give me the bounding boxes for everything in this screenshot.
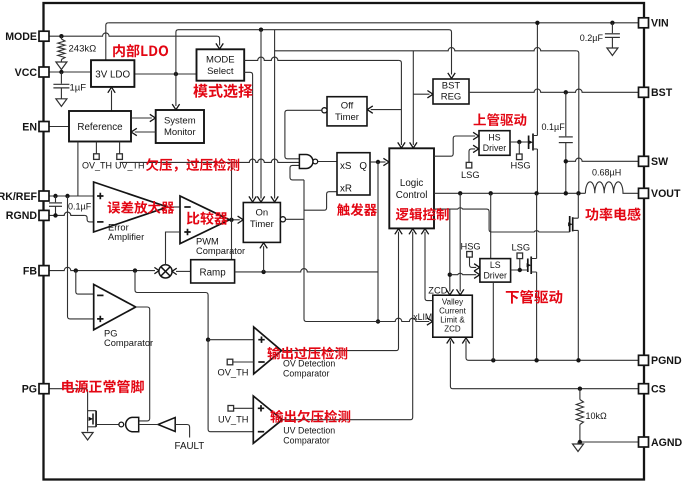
svg-text:FB: FB: [23, 265, 37, 277]
wire MODE Select out 2: [244, 72, 252, 198]
ground PG FET: [82, 433, 93, 441]
label error amplifier: [108, 201, 175, 214]
pin BST: [639, 87, 649, 97]
svg-text:HSG: HSG: [461, 242, 481, 252]
wire ZCD sense: [459, 193, 461, 291]
svg-text:1µF: 1µF: [70, 83, 87, 94]
wire CS: [450, 341, 639, 389]
pin MODE: [39, 31, 49, 41]
wire On Timer out: [286, 218, 305, 220]
svg-text:Comparator: Comparator: [104, 338, 153, 348]
svg-text:xS: xS: [340, 161, 352, 172]
svg-text:System: System: [164, 116, 196, 127]
wire comparator bus to NAND: [120, 159, 300, 162]
svg-text:Error: Error: [108, 223, 129, 233]
svg-text:3V LDO: 3V LDO: [95, 69, 130, 80]
wire Ramp out: [235, 269, 378, 272]
svg-text:Valley: Valley: [442, 298, 463, 307]
wire TRK to PG comparator plus: [68, 196, 94, 319]
svg-text:VOUT: VOUT: [651, 188, 681, 200]
wire PGND: [466, 341, 639, 361]
wire System Monitor to Reference: [135, 131, 156, 133]
pad LSG bottom: [517, 253, 523, 259]
svg-text:Logic: Logic: [400, 178, 424, 189]
svg-text:OV Detection: OV Detection: [283, 359, 335, 369]
op-amp OV Detection Comparator: [254, 327, 282, 374]
pad LSG top: [466, 162, 472, 168]
wire Logic to HS Driver: [434, 136, 475, 156]
wire Reference to LDO: [111, 91, 113, 112]
block System Monitor: [156, 110, 204, 143]
wire Q to Logic Control: [370, 161, 386, 163]
wire LS aux FET drain: [536, 193, 538, 258]
svg-text:BST: BST: [651, 87, 673, 99]
pin VCC: [39, 67, 49, 77]
wire to xR: [304, 192, 337, 211]
pin PG: [39, 384, 49, 394]
pin VIN: [639, 18, 649, 28]
gate NAND trigger: [299, 155, 313, 169]
wire SW node from Logic: [434, 192, 585, 194]
wire PWM out to NAND bus: [231, 162, 233, 259]
wire NAND to xS: [318, 161, 337, 163]
wire 3V rail branch to On Timer: [259, 28, 263, 32]
wire error amp out: [168, 206, 181, 208]
svg-text:Off: Off: [341, 101, 354, 112]
svg-text:PG: PG: [104, 329, 117, 339]
block Valley Current Limit ZCD: [433, 295, 473, 337]
wire FB: [49, 267, 156, 270]
wire to On Timer bottom: [263, 246, 265, 272]
ground: [56, 99, 67, 107]
pad UV_TH comparator: [228, 406, 234, 412]
label power good pin: [62, 380, 144, 393]
label high-side drive: [474, 113, 527, 126]
transistor HS FET: [528, 136, 530, 150]
pin TRK/REF: [39, 191, 49, 201]
pad OV_TH comparator: [227, 359, 233, 365]
wire EN: [49, 126, 70, 128]
svg-text:PWM: PWM: [196, 237, 219, 247]
op-amp PWM Comparator: [180, 196, 230, 244]
svg-text:0.1µF: 0.1µF: [542, 122, 566, 132]
wire 3V rail branch 2 to On Timer: [274, 30, 276, 199]
wire HS FET source to SW: [536, 149, 538, 193]
svg-text:Timer: Timer: [250, 219, 274, 230]
svg-text:Current: Current: [439, 307, 466, 316]
wire PWM out to On Timer: [230, 219, 240, 221]
wire multiplier to PWM plus: [166, 232, 181, 265]
svg-text:LSG: LSG: [512, 242, 531, 252]
svg-text:MODE: MODE: [206, 55, 235, 66]
label internal LDO: [113, 44, 168, 57]
capacitor 0.1µF bootstrap: [565, 92, 567, 136]
svg-text:Timer: Timer: [335, 112, 359, 123]
svg-text:Reference: Reference: [77, 122, 123, 133]
wire MODE: [49, 33, 218, 36]
svg-text:BST: BST: [442, 81, 461, 92]
wire AGND: [578, 441, 639, 443]
svg-text:TRK/REF: TRK/REF: [0, 191, 38, 203]
wire HS Driver to FET gate: [510, 141, 529, 143]
svg-text:HSG: HSG: [511, 161, 531, 171]
label comparator: [187, 212, 228, 225]
svg-text:ZCD: ZCD: [444, 325, 461, 334]
wire LS Driver out: [511, 269, 528, 271]
svg-text:PG: PG: [22, 384, 37, 396]
svg-text:xR: xR: [340, 184, 352, 195]
wire Logic to LS Driver: [449, 209, 451, 291]
label mode select: [193, 84, 253, 98]
wire LS Driver supply: [490, 193, 492, 258]
wire Ramp to multiplier: [176, 270, 191, 272]
capacitor 0.1µF soft-start: [55, 196, 57, 202]
ground AGND: [577, 442, 579, 444]
pin EN: [39, 122, 49, 132]
svg-text:ZCD: ZCD: [428, 286, 447, 296]
svg-text:LS: LS: [490, 260, 501, 270]
wire VCC: [49, 71, 92, 73]
wire HS FET drain to VIN: [536, 23, 538, 136]
pad UV_TH: [119, 142, 121, 154]
wire PG pin: [49, 389, 88, 432]
svg-text:VCC: VCC: [15, 67, 38, 79]
svg-text:OV_TH: OV_TH: [218, 368, 249, 378]
inverter FAULT: [158, 418, 175, 432]
pin SW: [639, 156, 649, 166]
block MODE Select: [197, 49, 245, 80]
pin PGND: [639, 355, 649, 365]
wire VIN rail to 3V LDO: [106, 23, 109, 60]
wire 3V rail: [134, 73, 196, 75]
svg-text:REG: REG: [441, 92, 462, 103]
wire LS power FET drain: [577, 193, 579, 218]
svg-text:VIN: VIN: [651, 18, 669, 30]
transistor LS aux FET: [527, 259, 529, 273]
svg-text:Comparator: Comparator: [283, 369, 330, 379]
svg-text:Ramp: Ramp: [200, 267, 227, 278]
ground: [56, 62, 67, 70]
svg-text:Select: Select: [207, 66, 234, 77]
svg-text:Limit &: Limit &: [440, 316, 465, 325]
label power inductor: [585, 208, 640, 221]
pin FB: [39, 266, 49, 276]
block Off Timer: [327, 97, 367, 126]
label logic control: [396, 208, 449, 221]
block HS Driver: [479, 131, 510, 156]
svg-text:CS: CS: [651, 384, 666, 396]
svg-text:MODE: MODE: [5, 31, 37, 43]
label UVLO OVP detect: [146, 158, 239, 172]
wire System Monitor supply: [175, 74, 177, 106]
block Ramp: [191, 260, 235, 283]
svg-text:RGND: RGND: [6, 210, 38, 222]
svg-text:Comparator: Comparator: [196, 246, 245, 256]
label trigger: [337, 203, 377, 216]
svg-text:UV Detection: UV Detection: [283, 426, 335, 436]
svg-text:SW: SW: [651, 156, 668, 168]
op-amp UV Detection Comparator: [253, 396, 282, 443]
svg-text:10kΩ: 10kΩ: [586, 411, 608, 421]
wire to NAND lower input: [290, 165, 304, 180]
wire Off Timer out to NAND: [285, 110, 322, 159]
pin AGND: [639, 437, 649, 447]
svg-text:243kΩ: 243kΩ: [69, 44, 97, 55]
block LS Driver: [480, 259, 511, 283]
block Logic Control: [389, 148, 434, 228]
wire FB to OV UV sense: [135, 271, 208, 340]
svg-text:HS: HS: [488, 133, 500, 143]
op-amp PG Comparator: [94, 284, 136, 329]
svg-text:AGND: AGND: [651, 437, 683, 449]
wire TRK/REF: [49, 195, 94, 197]
pad OV_TH: [95, 142, 97, 154]
capacitor 1µF: [60, 72, 62, 84]
svg-text:0.68µH: 0.68µH: [592, 168, 621, 178]
svg-text:0.1µF: 0.1µF: [68, 202, 92, 212]
svg-text:LSG: LSG: [461, 170, 480, 180]
svg-text:OV_TH: OV_TH: [82, 161, 112, 171]
op-amp Error Amplifier: [94, 182, 168, 232]
capacitor 0.2µF VIN: [610, 21, 614, 25]
resistor 10kΩ: [579, 389, 581, 400]
transistor PG FET: [88, 411, 97, 427]
svg-text:xLIM: xLIM: [413, 312, 432, 322]
wire MODE Select out to Off Timer and Logic: [244, 57, 399, 60]
svg-text:0.2µF: 0.2µF: [580, 33, 604, 43]
svg-text:UV_TH: UV_TH: [218, 415, 248, 425]
label low-side drive: [506, 290, 563, 304]
svg-text:Control: Control: [396, 190, 428, 201]
block On Timer: [243, 203, 280, 243]
wire Reference output: [77, 142, 79, 197]
wire SW: [566, 158, 639, 161]
svg-text:On: On: [255, 208, 268, 219]
svg-text:Amplifier: Amplifier: [108, 232, 144, 242]
pad HSG top: [517, 154, 523, 160]
svg-text:Q: Q: [359, 161, 367, 172]
resistor 243kΩ: [60, 36, 62, 39]
svg-text:Driver: Driver: [483, 143, 507, 153]
block flip-flop xS xR: [337, 153, 370, 195]
wire FET to NAND: [96, 424, 119, 426]
wire LS Driver bottom: [492, 282, 494, 360]
svg-text:FAULT: FAULT: [175, 441, 205, 452]
pin CS: [639, 384, 649, 394]
pad HSG bottom: [467, 252, 473, 258]
wire Reference to System Monitor: [131, 117, 152, 119]
transistor LS power FET: [569, 216, 571, 232]
svg-text:Comparator: Comparator: [283, 436, 330, 446]
wire UV out to Logic: [282, 232, 412, 420]
multiplier: [159, 265, 172, 278]
wire BST: [469, 89, 639, 92]
svg-text:Monitor: Monitor: [164, 127, 196, 138]
wire VOUT sense bus: [275, 47, 577, 50]
gate NAND PG: [126, 417, 139, 431]
wire Logic to LS gate: [434, 208, 570, 232]
wire BST REG left feed: [412, 51, 414, 145]
block Reference: [69, 111, 131, 142]
svg-text:PGND: PGND: [651, 355, 682, 367]
svg-text:EN: EN: [22, 121, 37, 133]
wire PG comp out to NAND: [136, 307, 150, 421]
svg-text:Driver: Driver: [483, 271, 507, 281]
wire Q down to xLIM: [377, 162, 379, 322]
wire LS aux FET source: [536, 272, 538, 360]
wire OV out to Logic: [282, 232, 399, 351]
block 3V LDO: [91, 60, 134, 87]
wire xLIM to Valley: [307, 318, 430, 321]
wire FAULT: [175, 425, 189, 438]
label output UV detect: [270, 410, 350, 423]
block BST REG: [433, 79, 469, 104]
pin VOUT: [639, 188, 649, 198]
inductor 0.68µH: [585, 182, 639, 194]
wire LS power FET source: [577, 230, 579, 360]
wire FB to PG comparator minus: [76, 271, 94, 295]
ground: [607, 48, 618, 56]
wire Valley to Logic: [425, 232, 433, 301]
wire RGND: [49, 212, 85, 215]
label output OV detect: [267, 347, 347, 360]
pin RGND: [39, 210, 49, 220]
